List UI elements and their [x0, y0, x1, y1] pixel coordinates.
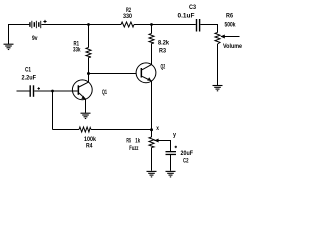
- svg-text:500k: 500k: [225, 22, 236, 29]
- ground (R5): [147, 171, 157, 177]
- wire C2 bottom to ground: [170, 155, 172, 171]
- node x junction: [150, 128, 153, 131]
- wire Q1 collector: [79, 74, 89, 88]
- svg-text:C1: C1: [25, 67, 31, 74]
- wire C3 to R6 top: [200, 25, 217, 33]
- svg-text:20uF: 20uF: [181, 150, 194, 157]
- node junction Q1 collector: [87, 72, 90, 75]
- wire junction to Q2 base: [89, 73, 137, 75]
- wire R3 bottom to Q2 collector: [151, 44, 153, 65]
- svg-text:R4: R4: [86, 142, 93, 149]
- wire R5 top lead: [151, 130, 153, 137]
- wire R5 wiper to node y to C2: [154, 141, 170, 152]
- svg-text:C2: C2: [183, 158, 189, 165]
- transistor Q2: [136, 63, 156, 83]
- wire Q1 emitter down to ground: [85, 99, 87, 113]
- ground (R6): [213, 86, 223, 91]
- ground (C2): [166, 171, 176, 177]
- wire R1 bottom to collector junction: [88, 58, 90, 74]
- svg-text:2.2uF: 2.2uF: [22, 75, 37, 82]
- resistor R3 8.2k: [149, 34, 154, 44]
- wire R1 top lead: [88, 25, 90, 48]
- svg-text:8.2k: 8.2k: [158, 40, 169, 47]
- wire battery plus to R2: [41, 24, 121, 26]
- svg-text:0.1uF: 0.1uF: [178, 13, 195, 20]
- capacitor C3 0.1uF: [196, 19, 200, 32]
- wire R2 to C3: [134, 24, 196, 26]
- resistor R1 33k: [86, 48, 91, 58]
- wire R5 bottom to ground: [151, 148, 153, 171]
- svg-text:y: y: [173, 132, 176, 139]
- potentiometer R5 1k Fuzz: [149, 137, 154, 148]
- wire R6 wiper output: [221, 36, 240, 38]
- wire base junction down: [52, 91, 54, 130]
- battery B1 9v: [29, 20, 46, 28]
- node junction R1 top: [87, 23, 90, 26]
- wire R3 top lead: [151, 25, 153, 34]
- svg-text:R3: R3: [159, 48, 166, 55]
- potentiometer R6 500k Volume: [215, 33, 220, 45]
- svg-text:9v: 9v: [32, 35, 38, 42]
- wire Q2 emitter down to node x: [151, 81, 153, 130]
- capacitor C1 2.2uF: [30, 85, 35, 97]
- wire R4 left lead: [53, 129, 80, 131]
- svg-text:33k: 33k: [73, 47, 81, 54]
- transistor Q1: [72, 80, 92, 100]
- wire R6 bottom to ground: [217, 44, 219, 85]
- svg-text:Volume: Volume: [223, 43, 242, 50]
- svg-text:Q2: Q2: [161, 64, 166, 71]
- svg-text:R5: R5: [126, 137, 131, 144]
- svg-text:1k: 1k: [135, 138, 140, 145]
- wire input lead: [17, 90, 30, 92]
- ground (Q1 emitter): [81, 113, 91, 118]
- svg-text:330: 330: [123, 13, 132, 20]
- node junction R3 top: [150, 23, 153, 26]
- capacitor C2 20uF: [166, 151, 177, 155]
- svg-text:x: x: [156, 125, 159, 132]
- wire R4 right lead to node x: [91, 129, 152, 131]
- resistor R2 330: [121, 22, 134, 27]
- svg-text:C3: C3: [189, 4, 196, 11]
- resistor R4 100k: [79, 127, 91, 132]
- svg-text:Fuzz: Fuzz: [129, 145, 138, 152]
- ground (battery): [4, 44, 14, 49]
- wire battery ground riser: [9, 25, 30, 45]
- node junction base/C1: [51, 90, 54, 93]
- wire C1 to Q1 base: [34, 90, 77, 92]
- svg-text:R6: R6: [226, 13, 233, 20]
- svg-text:Q1: Q1: [102, 89, 107, 96]
